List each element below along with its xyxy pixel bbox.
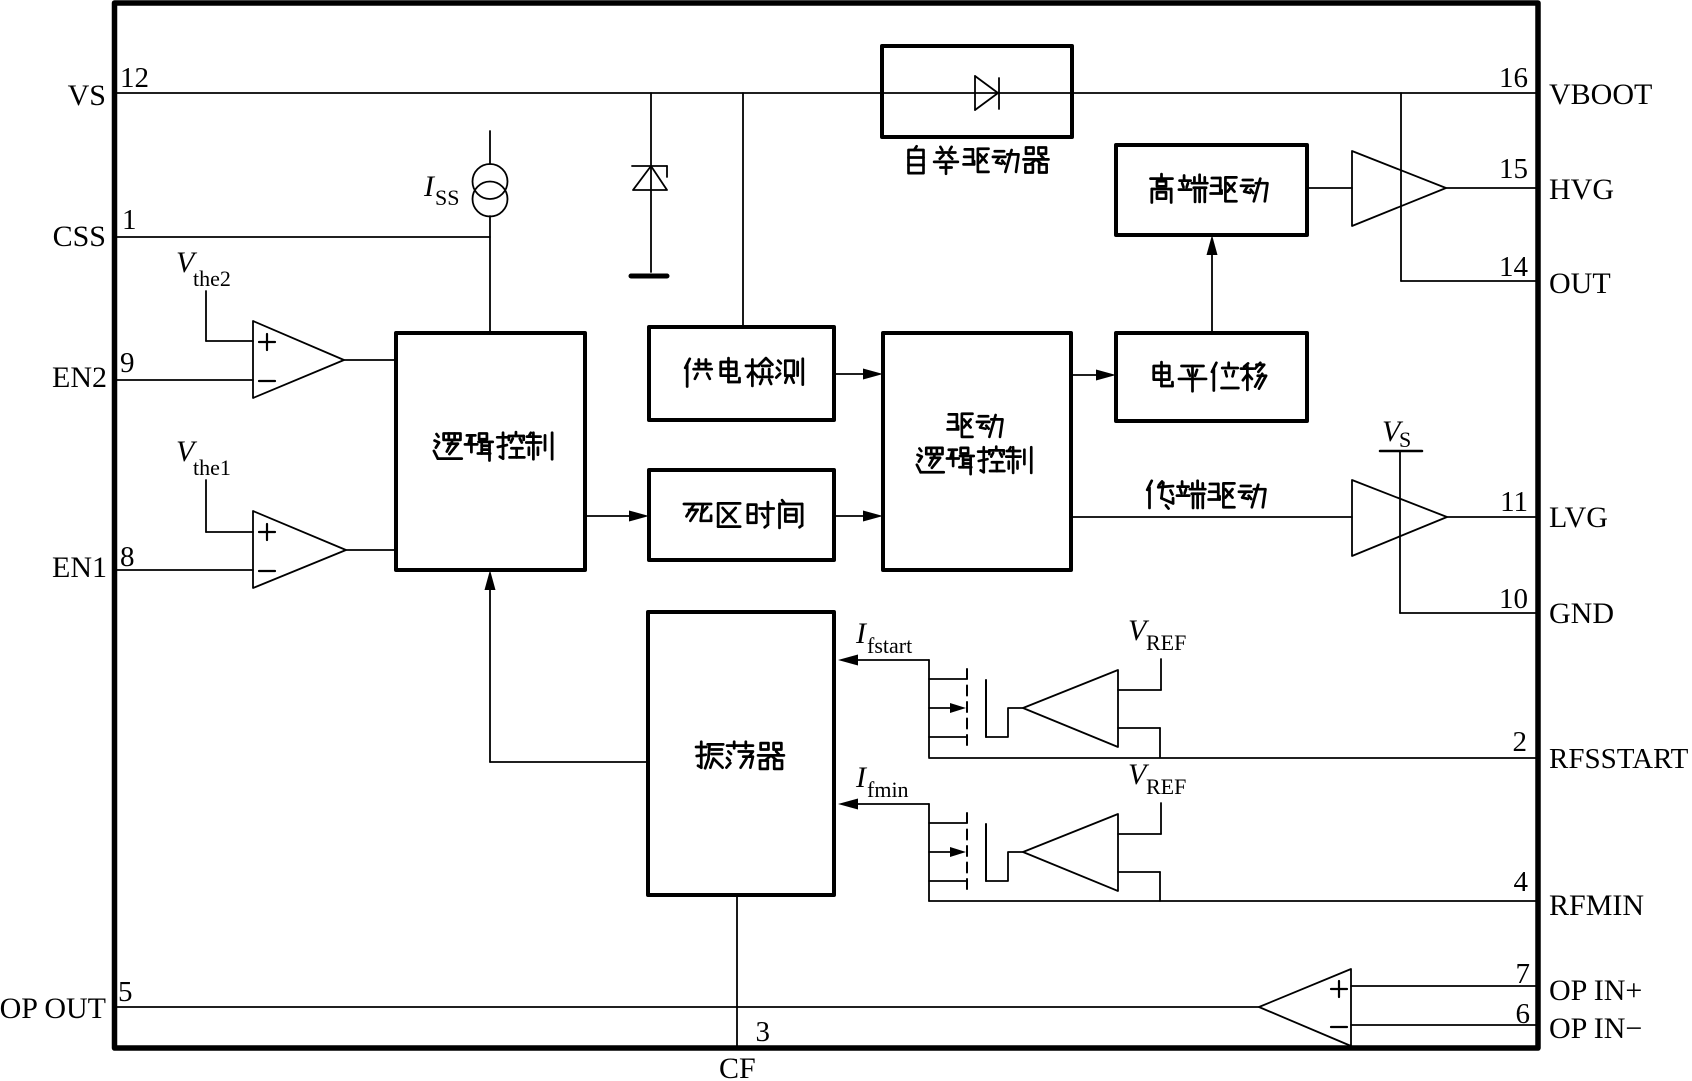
svg-text:RFMIN: RFMIN xyxy=(1549,889,1644,922)
svg-text:6: 6 xyxy=(1516,998,1531,1030)
svg-text:12: 12 xyxy=(120,62,149,94)
svg-text:9: 9 xyxy=(120,347,135,379)
svg-text:1: 1 xyxy=(122,204,137,236)
svg-text:the1: the1 xyxy=(193,455,231,480)
svg-text:OP OUT: OP OUT xyxy=(0,992,106,1025)
svg-text:GND: GND xyxy=(1549,597,1614,630)
svg-text:REF: REF xyxy=(1146,630,1186,655)
svg-text:SS: SS xyxy=(435,185,459,210)
svg-text:2: 2 xyxy=(1513,726,1528,758)
svg-text:S: S xyxy=(1399,427,1411,452)
svg-text:EN1: EN1 xyxy=(52,551,107,584)
svg-text:10: 10 xyxy=(1499,583,1528,615)
svg-text:REF: REF xyxy=(1146,774,1186,799)
svg-text:the2: the2 xyxy=(193,266,231,291)
svg-text:CSS: CSS xyxy=(53,220,106,253)
svg-text:16: 16 xyxy=(1499,62,1528,94)
svg-text:LVG: LVG xyxy=(1549,501,1608,534)
svg-text:fmin: fmin xyxy=(867,777,909,802)
svg-text:VS: VS xyxy=(68,79,106,112)
svg-text:OUT: OUT xyxy=(1549,267,1611,300)
svg-text:OP IN−: OP IN− xyxy=(1549,1012,1642,1045)
svg-text:11: 11 xyxy=(1500,486,1528,518)
svg-text:3: 3 xyxy=(756,1016,771,1048)
svg-text:RFSSTART: RFSSTART xyxy=(1549,743,1689,775)
svg-text:VBOOT: VBOOT xyxy=(1549,78,1652,111)
svg-text:5: 5 xyxy=(118,976,133,1008)
svg-text:EN2: EN2 xyxy=(52,361,107,394)
svg-text:4: 4 xyxy=(1514,866,1529,898)
svg-text:8: 8 xyxy=(120,541,135,573)
svg-text:fstart: fstart xyxy=(867,633,912,658)
svg-text:OP IN+: OP IN+ xyxy=(1549,974,1642,1007)
svg-text:14: 14 xyxy=(1499,251,1529,283)
svg-text:15: 15 xyxy=(1499,153,1528,185)
svg-text:CF: CF xyxy=(719,1052,756,1081)
svg-text:HVG: HVG xyxy=(1549,173,1614,206)
svg-text:7: 7 xyxy=(1516,958,1531,990)
